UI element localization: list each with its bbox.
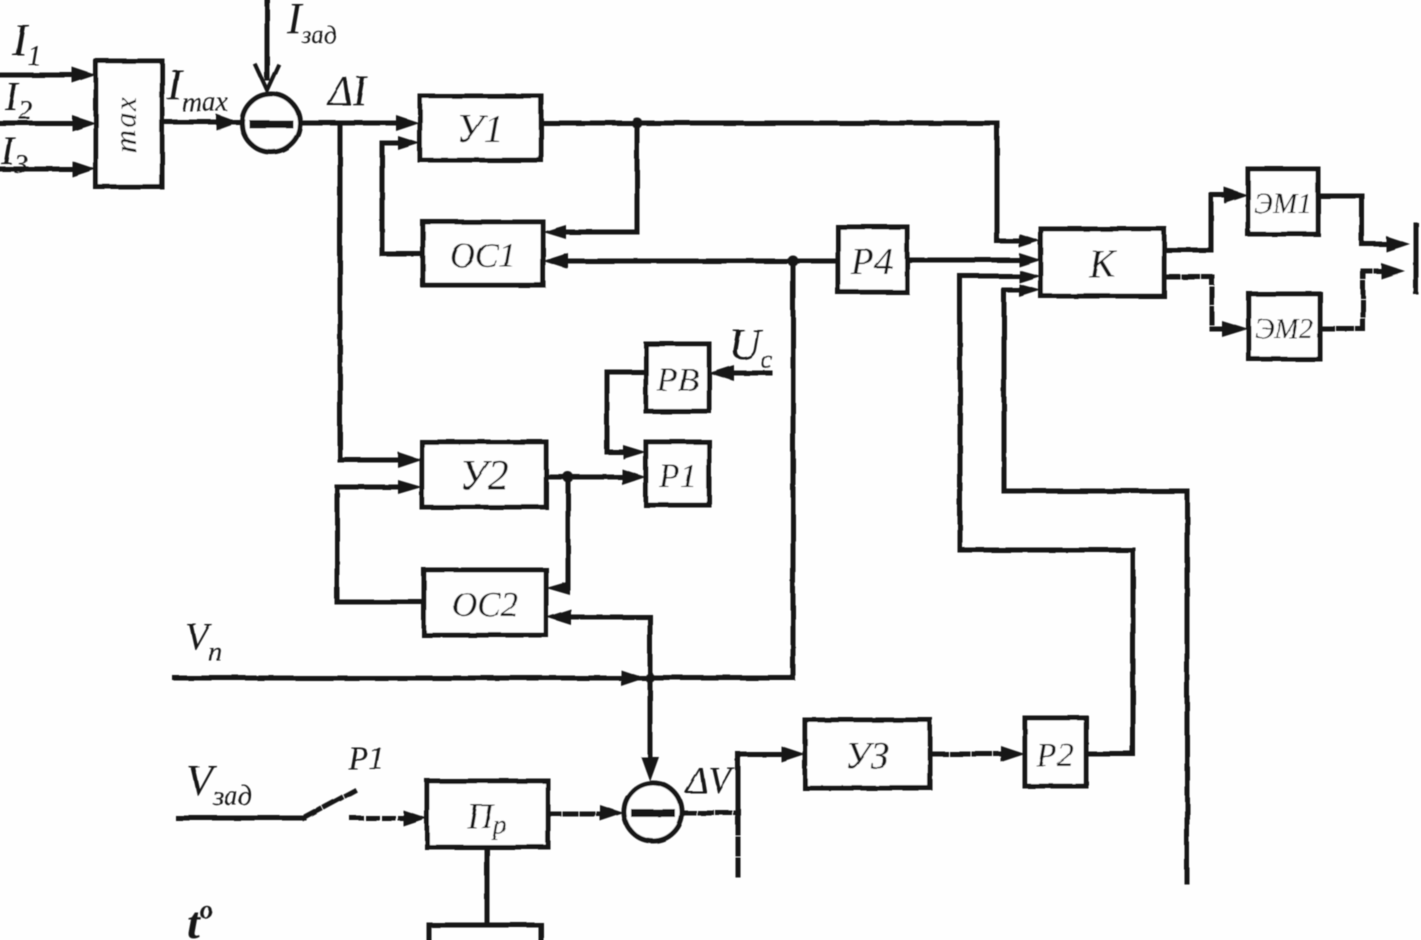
- block P4: [838, 227, 907, 292]
- block EM2: [1249, 294, 1320, 359]
- wire max to summing circle: [162, 120, 240, 125]
- arrow into max (I2): [72, 115, 96, 131]
- arrow into EM2: [1222, 321, 1248, 337]
- wire U2 output to P1: [546, 475, 628, 480]
- arrow into OC1 input 2: [543, 253, 568, 269]
- arrow into P1 input 2: [622, 469, 646, 485]
- svg-text:ОС2: ОС2: [452, 585, 518, 624]
- arrow into Pr: [403, 810, 427, 826]
- junction dot on U2 output: [563, 472, 574, 483]
- block EM1: [1248, 169, 1318, 234]
- wire branch down to summing circle 2: [648, 617, 653, 762]
- wire long feedback line P4 to OC1: [565, 259, 838, 264]
- arrow EM1 output right: [1386, 236, 1410, 252]
- summing circle 2: [624, 783, 682, 841]
- svg-text:ОС1: ОС1: [450, 236, 516, 275]
- arrow into U3: [781, 746, 805, 762]
- wire P4 to K: [907, 258, 1023, 263]
- wire dI branch down to U2: [340, 123, 404, 460]
- minus sign in summing circle 2: [635, 809, 671, 817]
- right edge bar: [1414, 225, 1419, 292]
- arrow into summing circle 1: [216, 114, 238, 130]
- wire Pr output to summing circle 2: [548, 812, 606, 817]
- svg-text:ΔI: ΔI: [326, 69, 369, 115]
- svg-text:У1: У1: [457, 106, 504, 151]
- block P1: [646, 442, 709, 505]
- block RV: [646, 344, 709, 411]
- block OC2: [424, 570, 546, 635]
- block U1: [420, 96, 541, 160]
- wire summing circle 2 output: [682, 811, 738, 816]
- arrow into U1 input: [396, 115, 420, 131]
- wire input I3: [0, 167, 78, 172]
- block U3: [805, 720, 930, 788]
- minus sign in summing circle 1: [253, 120, 289, 128]
- arrow into K input 3: [1019, 270, 1041, 283]
- arrow into OC2 input 1: [546, 581, 570, 595]
- summing circle 1: [242, 94, 300, 152]
- wire EM2 output to right edge: [1320, 271, 1387, 329]
- wire Vn branch into OC2 input 2: [568, 615, 650, 620]
- block OC1: [423, 222, 543, 285]
- switch blade P1: [304, 791, 354, 818]
- arrow EM2 output right: [1381, 263, 1405, 279]
- svg-text:РВ: РВ: [656, 362, 699, 399]
- arrow Uc into RV: [709, 365, 734, 381]
- wire U3 to P2: [930, 752, 1007, 757]
- junction dot on Vn line: [645, 673, 655, 683]
- wire K output 2 to EM2: [1164, 277, 1230, 329]
- svg-text:Р2: Р2: [1035, 737, 1074, 774]
- arrow down into summing circle 2: [641, 757, 659, 782]
- svg-text:ЭМ2: ЭМ2: [1255, 313, 1313, 345]
- junction dot on U1 output: [632, 118, 643, 129]
- arrow into K input 4: [1019, 284, 1041, 297]
- wire riser up to U3 input: [738, 754, 787, 813]
- svg-text:Р1: Р1: [658, 458, 697, 495]
- wire EM1 output to right edge: [1318, 196, 1392, 244]
- wire K output 1 to EM1: [1164, 195, 1230, 250]
- block max: [96, 61, 162, 187]
- arrow into max (I3): [72, 161, 96, 177]
- arrow into K input 2: [1019, 253, 1041, 267]
- junction dot on feedback line: [788, 256, 799, 267]
- block K: [1041, 229, 1164, 296]
- wire summing circle 1 to U1: [300, 121, 402, 126]
- block U2: [422, 442, 546, 507]
- wire from junction down to OC1 level: [635, 123, 640, 232]
- arrow into U1 input 2: [398, 136, 420, 150]
- arrow into P1 input 1: [623, 445, 646, 459]
- wire input I1: [0, 73, 78, 78]
- block datchik (cut off at bottom): [429, 925, 541, 940]
- arrow into U2 input 1: [398, 452, 422, 468]
- svg-text:ΔV: ΔV: [684, 760, 735, 802]
- arrow into OC1 top input: [543, 225, 566, 239]
- wire Izad vertical: [265, 0, 270, 78]
- arrow into U2 input 2: [398, 480, 422, 494]
- arrow into EM1: [1224, 187, 1248, 203]
- svg-text:max: max: [108, 95, 143, 153]
- wire OC1 output to U1 input 2: [382, 143, 423, 254]
- wire riser lower stub: [736, 818, 741, 881]
- arrow into K input 1: [1019, 234, 1041, 248]
- block Pr: [427, 781, 548, 847]
- wire input I2: [0, 121, 78, 126]
- wire P2 return path to K input 3: [960, 276, 1133, 754]
- wire junction down to Vn line: [791, 261, 796, 678]
- wire OC2 output to U2 input 2: [337, 487, 424, 602]
- svg-text:УЗ: УЗ: [845, 735, 889, 777]
- wire switch to Pr: [352, 816, 410, 821]
- wire into OC1 top input: [563, 230, 637, 235]
- arrow into summing circle 2: [600, 805, 624, 821]
- wire lower right riser to K input 4: [1004, 290, 1187, 882]
- wire Vzad input: [178, 816, 304, 821]
- arrow on Vn line: [621, 670, 645, 686]
- wire Vn long horizontal: [175, 676, 793, 681]
- svg-text:К: К: [1088, 241, 1118, 286]
- wire Uc into RV: [727, 371, 770, 376]
- arrow Izad into summing circle 1: [256, 66, 278, 90]
- svg-text:ЭМ1: ЭМ1: [1254, 188, 1312, 220]
- svg-text:Р1: Р1: [347, 741, 385, 777]
- arrow into P2: [1001, 746, 1025, 762]
- arrow into max (I1): [72, 67, 96, 83]
- wire U1 output long line to K: [541, 123, 1023, 241]
- block P2: [1025, 718, 1086, 786]
- wire RV output down to P1: [607, 372, 646, 452]
- svg-text:У2: У2: [459, 453, 508, 499]
- arrow into OC2 input 2: [546, 609, 571, 625]
- wire U2 output down into OC2: [566, 477, 568, 588]
- svg-text:Р4: Р4: [850, 241, 893, 283]
- wire Pr bottom to datchik box: [485, 847, 490, 925]
